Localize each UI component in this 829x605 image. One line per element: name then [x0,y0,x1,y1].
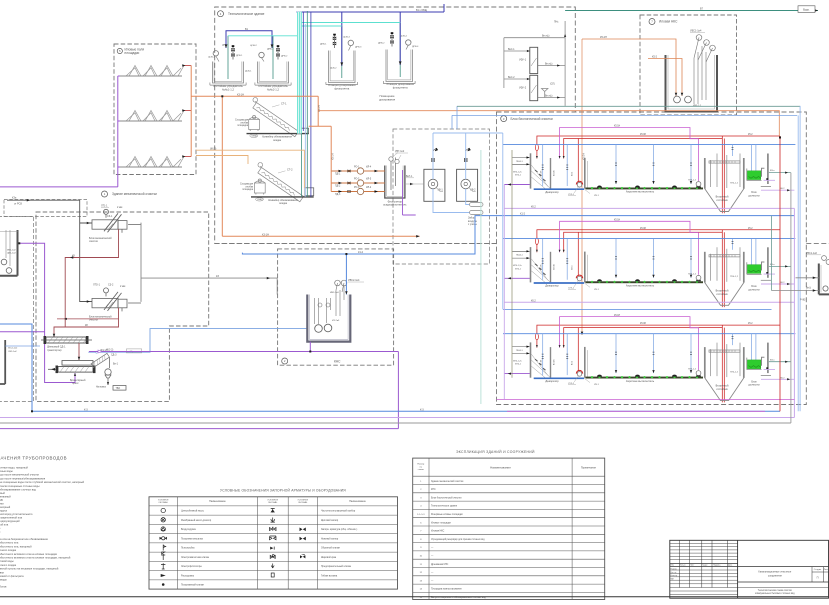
suction line to blower room [405,183,424,185]
svg-text:осадкоуплотнитель: осадкоуплотнитель [383,204,407,207]
motor circles [696,35,702,41]
svg-text:Воздуходувка: Воздуходувка [181,529,196,531]
svg-text:Вн(-): Вн(-) [806,288,811,290]
svg-text:ые сточные воды: ые сточные воды [0,470,13,473]
screenings wash line [57,318,119,320]
briquetting press [62,361,93,366]
svg-text:Погружаемый клапан: Погружаемый клапан [181,584,205,587]
svg-text:дозирования: дозирования [379,98,396,101]
svg-text:УФУ-2: УФУ-2 [519,87,527,90]
mixer stack T4 [390,32,393,46]
pump P1 [213,51,218,56]
svg-text:К-3: К-3 [420,408,424,411]
magenta bottom collector [497,400,795,412]
label circle 3 [501,116,507,122]
svg-text:процентного осадка: процентного осадка [0,564,17,567]
svg-text:ВнС-1: ВнС-1 [508,49,515,51]
cyan distribution pipes [228,23,400,36]
svg-text:СМВД: СМВД [251,136,257,138]
svg-text:Площадка компостирования: Площадка компостирования [431,589,462,591]
svg-text:№№2-1,2: №№2-1,2 [267,87,279,91]
svg-text:Наименование: Наименование [490,466,511,470]
svg-text:Иловая НКС: Иловая НКС [431,531,445,533]
orange collection pipe from beds [191,66,222,157]
svg-text:УВГ-1и2: УВГ-1и2 [395,150,405,153]
svg-text:избыточного осадка: избыточного осадка [0,548,17,552]
thickened sludge outlet (purple) [403,170,416,215]
motor circles [335,280,341,286]
svg-text:удка избыточного ила, напор: удка избыточного ила, напорный [0,544,32,548]
svg-text:Сгущающая: Сгущающая [240,184,254,186]
inlet (blue) [345,254,347,295]
svg-text:№док: №док [702,564,707,567]
screw conveyor SD-1 [46,337,86,343]
svg-text:Канализационные очистные: Канализационные очистные [758,571,791,574]
svg-text:БиГ-1: БиГ-1 [406,175,413,178]
svg-text:флокулянта: флокулянта [393,86,408,90]
inner box: blower station [393,129,490,264]
svg-text:Электрофлотаторы: Электрофлотаторы [181,565,202,568]
svg-text:Запорн. арматура (общ. обоз: Запорн. арматура (общ. обознач.) [321,529,358,531]
svg-text:ЭКСПЛИКАЦИЯ ЗДАНИЙ И СООРУЖ: ЭКСПЛИКАЦИЯ ЗДАНИЙ И СООРУЖЕНИЙ [456,450,535,454]
svg-text:СТ-2: СТ-2 [287,169,293,172]
sludge NKS tank [666,55,718,112]
svg-text:Лист: Лист [824,569,829,571]
svg-text:ОБОЗНАЧ.: ОБОЗНАЧ. [268,501,278,504]
svg-text:ТБО: ТБО [116,388,121,390]
svg-text:Технологическая схема очистк: Технологическая схема очистки [758,590,793,592]
svg-text:К6.2: К6.2 [531,299,536,302]
svg-text:ирных закрепленной ила: ирных закрепленной ила [0,516,23,520]
svg-text:ПД-3: ПД-3 [335,194,341,196]
svg-text:ЦОВ-4: ЦОВ-4 [400,36,407,38]
svg-text:ДРВ-3: ДРВ-3 [355,47,362,49]
blower UV-1 [424,169,445,201]
inclined conveyor SD-3 [91,353,109,367]
tank T2: settler-averager 2 [255,62,291,86]
screenings (maroon) pipes K8 [54,229,119,337]
svg-text:В1 к ОБЩ: В1 к ОБЩ [416,9,428,12]
svg-text:удка избыточного ила: удка избыточного ила [0,541,19,545]
svg-text:СД-3: СД-3 [111,353,117,356]
orange sludge mains [222,96,419,236]
svg-text:СЗ-1: СЗ-1 [107,215,113,218]
svg-text:Помещение: Помещение [380,94,395,98]
svg-text:ЦОВ-2: ЦОВ-2 [250,45,257,47]
svg-text:УВС1-1и4: УВС1-1и4 [690,30,702,33]
svg-text:Вн и(с): Вн и(с) [542,36,550,38]
TBO disposal box [113,386,126,391]
svg-text:вод дренажный: вод дренажный [0,495,11,499]
svg-text:ИЗ-2и3: ИЗ-2и3 [332,320,340,322]
svg-text:ЛТ1-1: ЛТ1-1 [101,205,108,208]
purple sludge line to beds [0,186,118,188]
bunker [109,358,111,369]
UV piping loop [504,21,565,106]
thickener drum 2 [254,179,265,195]
internal pipes [694,38,713,105]
svg-text:Лист: Лист [690,565,694,567]
treatment train 1 [503,126,795,214]
svg-text:Подпись: Подпись [713,565,720,567]
pump P3 [348,40,353,45]
svg-text:РО-1: РО-1 [354,167,360,169]
svg-text:УВ-2: УВ-2 [470,189,476,192]
svg-text:СТ-1: СТ-1 [281,103,287,106]
svg-text:РО-2: РО-2 [354,179,360,181]
orange sludge pipes K5-2N [582,39,682,335]
svg-text:ДПВ-2: ДПВ-2 [378,43,385,45]
screen SZ-2 [92,288,127,312]
svg-text:Наименование: Наименование [349,500,366,503]
tank T3: flocculant dosing [326,51,358,85]
svg-text:ОЗНАЧЕНИЯ ТРУБОПРОВОДОВ: ОЗНАЧЕНИЯ ТРУБОПРОВОДОВ [0,456,67,461]
svg-text:ЖС2-1и2: ЖС2-1и2 [8,348,18,350]
red recycle riser [779,136,781,411]
wash water line (blue) to digester [88,329,307,353]
label circle 5 [117,48,122,53]
left column names [181,510,358,587]
UV unit UFU-1 [530,47,538,73]
svg-text:2 мм: 2 мм [117,206,123,209]
floor line 2 [251,196,314,198]
pump P4 [406,40,411,45]
outlet channel to KNS [128,223,277,303]
svg-text:ательной ила: ательной ила [0,523,9,527]
svg-text:УВ-1: УВ-1 [438,189,444,192]
svg-text:РО-3: РО-3 [354,187,360,189]
tank T4: flocculant dosing [383,50,415,84]
building box 3: biological treatment block [497,112,807,405]
svg-text:ока тяжелой пульпы на песк: ока тяжелой пульпы на песковые площадки,… [0,567,59,571]
violet treated-water mains [0,208,794,417]
conveyor ST-1 [249,97,301,137]
svg-text:от РОЗ: от РОЗ [14,203,22,206]
air discharge pipes [433,133,503,213]
svg-text:ДРВ-1: ДРВ-1 [236,55,243,57]
flow arrows and tags [527,50,530,52]
svg-text:УСЛОВНЫЕ ОБОЗНАЧЕНИЯ ЗАПОРНО: УСЛОВНЫЕ ОБОЗНАЧЕНИЯ ЗАПОРНОЙ АРМАТУРЫ И… [220,489,346,493]
check valves on risers [431,158,434,162]
svg-text:К3-1Н: К3-1Н [237,93,244,96]
svg-text:с улицы: с улицы [468,223,477,226]
svg-text:5.1÷5.3: 5.1÷5.3 [417,513,425,516]
flush water tank (cut at sheet edge) [0,340,5,384]
right collection risers [797,115,799,411]
svg-text:Частотно-регулируемый прибор: Частотно-регулируемый прибор [321,510,356,513]
svg-text:ованные очищенные воды посл: ованные очищенные воды после глубокой ме… [0,480,85,484]
building box 4: technological building (L-shape) [215,7,576,244]
svg-text:флокулянта: флокулянта [334,87,349,91]
KNS pumps [315,325,323,333]
receiving reservoir dashed box [0,217,34,402]
svg-text:Рук. гр.: Рук. гр. [670,572,677,574]
dosing pumps PD-1..3 [331,171,385,192]
intake silencers [470,203,484,207]
svg-text:промывки: промывки [0,571,4,574]
svg-text:ЦОВ-3: ЦОВ-3 [343,37,350,39]
svg-text:ИВ2-1и3: ИВ2-1и3 [330,292,339,294]
svg-text:Вн и(с): Вн и(с) [545,63,553,65]
floor line 1 [247,133,309,135]
svg-text:ние и обеззараживание сточн: ние и обеззараживание сточных вод [0,488,36,492]
purple feed pipe to beds [118,76,120,187]
svg-text:удка иловой воды: удка иловой воды [0,559,14,563]
technical water riser [511,150,513,378]
svg-text:Станция дозирования: Станция дозирования [386,82,414,86]
label circle 1 [102,191,108,197]
svg-text:Бн-1: Бн-1 [113,362,119,365]
svg-text:осадка: осадка [279,202,288,205]
pipeline legend lines [0,465,85,588]
title block frame [670,540,829,598]
svg-text:УФУ-1: УФУ-1 [519,59,527,62]
svg-text:Технологическое здание: Технологическое здание [431,506,458,508]
svg-text:коммунальных бытовых сточных: коммунальных бытовых сточных вод [755,593,795,595]
svg-text:ный влагорный: ный влагорный [0,505,11,509]
treatment train 2 [503,220,795,308]
svg-text:илобак: илобак [241,122,249,124]
svg-text:Сгущающая: Сгущающая [235,120,249,122]
svg-text:ода исковой от фильтрата: ода исковой от фильтрата [0,574,24,578]
conveyor ST-2 [254,162,306,202]
svg-text:ПД-1: ПД-1 [335,174,341,176]
symbols column 3 (black) [300,528,306,559]
svg-text:К1-2: К1-2 [358,251,364,254]
svg-text:СЗ-2: СЗ-2 [108,283,114,286]
svg-text:городовый: городовый [0,491,5,495]
sludge bed row 3 [120,157,184,168]
receiving reservoir [0,230,18,276]
treatment train 3 [503,315,795,403]
building box 1: mechanical treatment building [36,212,209,401]
teal drain riser [300,134,302,197]
svg-text:Расходомер: Расходомер [181,575,195,577]
building box 2: KNS [278,249,394,365]
svg-text:Здание механической очистки: Здание механической очистки [431,480,464,483]
secondary blue header [503,308,772,310]
pale teal riser [480,150,482,404]
light orange drainage [196,150,304,188]
svg-text:Погружная мешалка: Погружная мешалка [181,538,204,540]
blower UV-2 [457,169,478,201]
svg-text:Технологическое здание: Технологическое здание [228,12,265,16]
svg-text:схеме: схеме [418,469,425,471]
svg-text:УВС2-1и4: УВС2-1и4 [348,279,360,282]
svg-text:ИЛ-2: ИЛ-2 [366,187,372,189]
svg-text:Мембранный насос-дозатор: Мембранный насос-дозатор [181,519,212,522]
discharge box at ST-2 end [305,188,314,196]
svg-text:механически очищенные сточны: механически очищенные сточные воды [0,485,40,488]
svg-text:удка избыточного активного: удка избыточного активного ила на иловые… [0,552,58,556]
svg-text:ИЛ-4: ИЛ-4 [366,167,372,169]
svg-text:форсунки: форсунки [0,502,4,506]
svg-text:№№1-1,2: №№1-1,2 [222,87,234,91]
svg-text:Флокулятор: Флокулятор [388,199,403,203]
svg-text:Стадия: Стадия [814,569,822,571]
mixer stack T3 [333,34,336,48]
mixer stack T1 [231,45,234,59]
svg-text:(К6.3): (К6.3) [210,147,217,150]
svg-text:Наименование: Наименование [209,500,226,503]
svg-text:Вдхр.: Вдхр. [803,7,810,11]
svg-text:Номер: Номер [417,464,425,466]
main blue sewage line K1-2 [242,216,794,256]
svg-text:ДСВ-1: ДСВ-1 [245,71,252,73]
svg-text:К-3: К-3 [84,408,88,411]
svg-text:щие сточные воды, напорный: щие сточные воды, напорный [0,465,28,469]
svg-text:К5-2Н: К5-2Н [600,36,607,39]
excess sludge header (orange) [318,111,779,136]
svg-text:Блок биологической очистки: Блок биологической очистки [511,117,553,121]
svg-text:Примечание: Примечание [581,466,597,470]
violet riser left [503,185,505,400]
maroon feed from conveyor to press [78,343,80,360]
svg-text:ИВ1-1и2: ИВ1-1и2 [7,250,16,252]
svg-text:очистки: очистки [89,240,99,243]
pumped line from reservoir (purple) [0,243,75,382]
dark blue risers [302,12,304,131]
svg-text:ЦВ1-1и2: ЦВ1-1и2 [7,252,16,254]
label circle 2 [282,358,288,364]
svg-text:ные воды после перекиси/обе: ные воды после перекиси/обеззараживания [0,476,46,480]
svg-text:К6.2: К6.2 [531,206,536,209]
svg-text:Разраб.: Разраб. [670,568,677,570]
svg-text:Предохранительный клапан: Предохранительный клапан [321,565,352,568]
svg-text:Кол.уч: Кол.уч [680,565,686,567]
svg-text:пресс: пресс [72,382,79,385]
grey outfall line [0,173,791,423]
svg-text:Блок биологической очистки: Блок биологической очистки [431,496,462,499]
svg-text:ДРВ-2: ДРВ-2 [281,56,288,58]
svg-text:К3и: К3и [12,197,17,200]
svg-text:позадка ила на безреагентно: позадка ила на безреагентное обезвоживан… [0,537,48,541]
svg-text:осадка: осадка [273,139,282,142]
svg-text:Электромагнитная клапан: Электромагнитная клапан [181,557,210,559]
svg-text:Щитовой затвор: Щитовой затвор [321,519,339,522]
receiving chamber dashed box [4,200,87,217]
NKS pumps [674,96,681,103]
symbols column 2 [270,509,277,578]
svg-text:ИЛ-5: ИЛ-5 [366,179,372,181]
outlet (purple) from KNS bottom [89,342,398,429]
svg-text:Пьезотрубка: Пьезотрубка [181,548,195,550]
svg-text:Н.контр.: Н.контр. [670,575,678,577]
boundary dashed line segments y=243.6 [215,243,497,245]
svg-text:Ножевой затвор: Ножевой затвор [321,537,339,540]
svg-text:елопроводы: елопроводы [0,579,7,582]
svg-text:удка избыточного активного: удка избыточного активного ила на иловые… [0,556,71,560]
bottom blue drain main [0,324,780,411]
building box 7: sludge pumping station NKS [640,15,737,115]
thickener drum 1 [249,116,260,132]
svg-text:Р-Ф3: Р-Ф3 [800,298,806,301]
svg-text:(СЛ): (СЛ) [550,84,555,86]
tank T1: settler-averager 1 [210,62,246,86]
svg-text:Отстойник усреднитель: Отстойник усреднитель [213,84,243,88]
svg-text:П: П [817,576,819,580]
svg-text:сооружения: сооружения [768,574,783,577]
label circle 4 [218,11,224,17]
label circle 7 [649,19,655,25]
tank labels [213,82,414,101]
inlet channel [7,200,92,301]
svg-text:На вывоз: На вывоз [96,386,106,388]
svg-text:Центробежный насос: Центробежный насос [181,510,205,513]
svg-text:КНС: КНС [334,359,341,363]
internal pipes [315,283,345,324]
mixer stack T2 [276,45,279,59]
svg-text:ПД-2: ПД-2 [335,186,341,188]
teal internal pipes [228,23,400,80]
drainage pump pit at sheet edge [819,264,829,295]
svg-text:К5-1Н: К5-1Н [331,153,334,160]
svg-text:площадки: площадки [125,51,140,55]
svg-text:К3-1Н: К3-1Н [262,233,269,236]
flocculator-thickener tank [385,166,405,199]
svg-text:вента ботов: вента ботов [0,585,7,589]
sludge bed row 1 [120,66,184,77]
svg-text:ЦОВ-1: ЦОВ-1 [208,57,215,59]
svg-text:Отстойник усреднитель: Отстойник усреднитель [258,84,288,88]
svg-text:вды ПАВ: вды ПАВ [0,498,3,502]
svg-text:ОБОЗНАЧ.: ОБОЗНАЧ. [298,501,308,504]
svg-text:Здание механической очистки: Здание механической очистки [112,192,157,196]
svg-text:ОБОЗНАЧ.: ОБОЗНАЧ. [158,501,168,504]
svg-text:КНС: КНС [431,489,436,491]
svg-text:транспортер: транспортер [47,349,62,352]
svg-text:СВ2-1и2: СВ2-1и2 [8,351,17,353]
pump P2 [259,52,264,57]
svg-text:ДПВ-1: ДПВ-1 [320,44,327,46]
drain arrows row1 [184,66,191,157]
svg-text:ные воды после механической: ные воды после механической очистки [0,473,40,477]
svg-text:ный воздуха: ный воздуха [0,509,7,513]
symbols column 1 [160,508,167,586]
light blue riser [304,24,306,197]
svg-text:ирных циркулирующий: ирных циркулирующий [0,519,20,523]
svg-text:Усредняющий резервуар для п: Усредняющий резервуар для приема сточных… [431,538,485,541]
UV feed line [457,105,800,107]
treated water to discharge (top right, teal) [565,10,818,12]
dark blue feed pipes [226,4,444,66]
svg-text:Иловые площадки: Иловые площадки [431,522,451,524]
svg-text:Резервные иловые площадки: Резервные иловые площадки [431,514,463,516]
svg-text:Ж(2-2): Ж(2-2) [106,348,113,351]
svg-text:Станция дозирования: Станция дозирования [328,83,356,87]
svg-text:ДСВ-2: ДСВ-2 [330,68,337,70]
air duct riser [502,133,504,309]
svg-text:К1-2: К1-2 [520,213,526,216]
sheet bottom border [0,596,829,598]
svg-text:ДРВ-4: ДРВ-4 [412,46,419,48]
svg-text:илобак: илобак [246,186,254,188]
svg-text:Вн и(с): Вн и(с) [545,95,553,97]
svg-text:ВнС-2: ВнС-2 [508,77,515,79]
cyan gravity band [297,12,302,134]
svg-text:площадка: площадка [242,189,253,191]
svg-text:площадка: площадка [237,125,248,127]
screen SZ-1 [92,209,127,233]
small equipment tags [208,36,419,73]
svg-text:Шаровой кран: Шаровой кран [321,556,337,559]
svg-text:2 мм: 2 мм [120,285,126,288]
purple return main [0,428,398,430]
svg-text:СМВД: СМВД [257,199,263,201]
svg-text:Гибкая вставка: Гибкая вставка [321,575,338,577]
svg-text:Иловая НКС: Иловая НКС [659,20,678,24]
svg-text:Дренажная КНС: Дренажная КНС [431,564,449,566]
